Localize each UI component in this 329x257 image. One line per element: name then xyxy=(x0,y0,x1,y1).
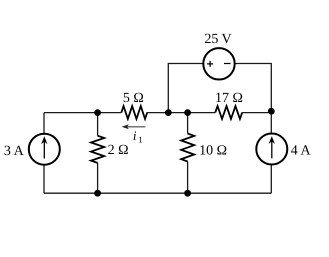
resistor 5 ohm (horizontal zigzag) xyxy=(121,106,147,119)
resistor 10 ohm (vertical zigzag) xyxy=(181,134,194,162)
current source 4A circle xyxy=(256,134,287,165)
svg-text:3 A: 3 A xyxy=(4,144,25,159)
wire: 2-ohm branch verticals xyxy=(97,113,99,194)
wire: top loop to 25V source xyxy=(168,64,271,194)
minus sign of 25V source xyxy=(224,63,231,65)
svg-text:5 Ω: 5 Ω xyxy=(123,91,144,106)
node dot: 5ohm/17ohm junction (top loop tap) xyxy=(165,109,172,116)
arrow of 4A source xyxy=(271,139,273,159)
wire: main horizontal net, left segment xyxy=(44,112,121,114)
wire: bottom net xyxy=(44,192,271,194)
svg-text:17 Ω: 17 Ω xyxy=(215,91,243,106)
svg-text:10 Ω: 10 Ω xyxy=(199,144,227,159)
wire: main horizontal net, between 5ohm and 17ohm xyxy=(147,112,215,114)
svg-text:4 A: 4 A xyxy=(291,144,312,159)
voltage source 25V circle xyxy=(203,48,234,79)
wire: left branch verticals around 3A source xyxy=(43,113,45,194)
svg-text:2 Ω: 2 Ω xyxy=(108,143,129,158)
node dot: 10ohm bottom junction xyxy=(184,190,191,197)
resistor 17 ohm (horizontal zigzag) xyxy=(215,106,242,119)
node dot: 10ohm top junction xyxy=(184,109,191,116)
wire: main horizontal net, right of 17ohm xyxy=(242,112,271,114)
resistor 2 ohm (vertical zigzag) xyxy=(91,136,104,163)
plus sign of 25V source xyxy=(207,61,213,67)
node dot: 2ohm top junction xyxy=(94,109,101,116)
node dot: 2ohm bottom junction xyxy=(94,190,101,197)
current source 3A circle xyxy=(29,134,60,165)
node dot: right net junction xyxy=(268,108,275,115)
wire: 10-ohm branch verticals xyxy=(187,113,189,194)
svg-text:25 V: 25 V xyxy=(204,32,231,47)
arrow of 3A source xyxy=(43,139,45,159)
current arrow i1 xyxy=(128,126,146,128)
